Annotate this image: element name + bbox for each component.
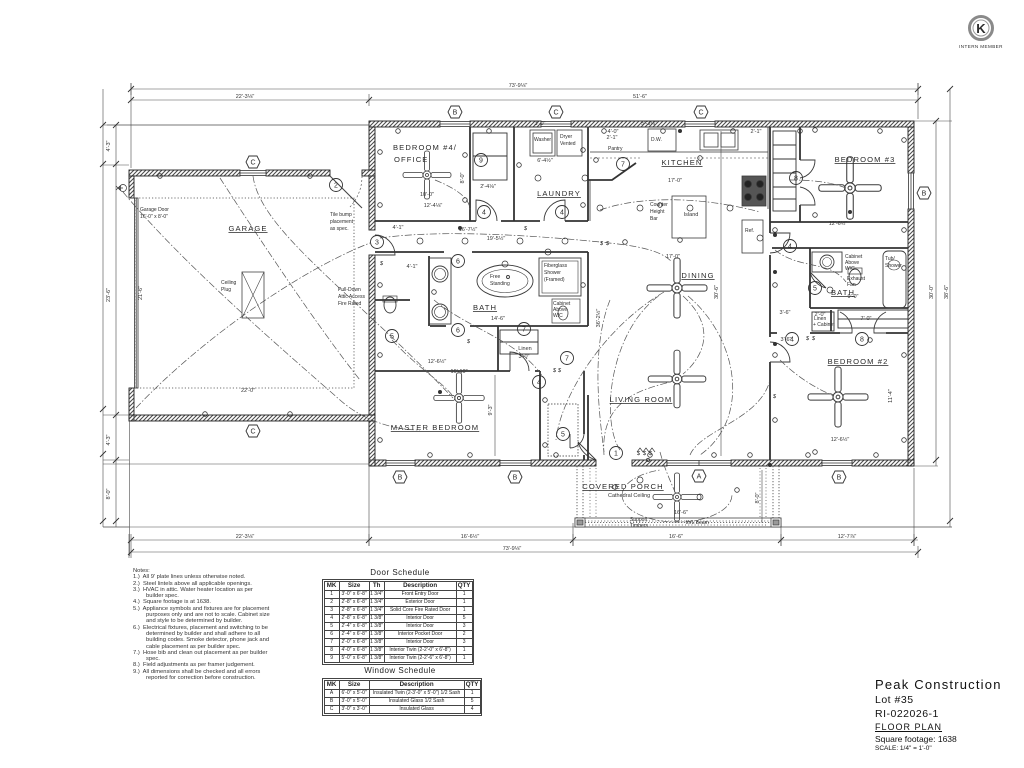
svg-text:COVERED PORCH: COVERED PORCH xyxy=(582,482,663,491)
svg-text:MASTER BEDROOM: MASTER BEDROOM xyxy=(391,423,479,432)
svg-text:2'-1": 2'-1" xyxy=(751,129,762,135)
svg-text:$: $ xyxy=(557,368,562,374)
svg-text:3: 3 xyxy=(375,240,379,247)
svg-text:12'-6½": 12'-6½" xyxy=(829,220,848,227)
svg-text:$: $ xyxy=(642,451,647,457)
svg-text:Pantry: Pantry xyxy=(608,146,623,152)
svg-text:Cathedral Ceiling: Cathedral Ceiling xyxy=(608,493,650,499)
svg-text:C: C xyxy=(698,110,703,117)
svg-text:Attic Access: Attic Access xyxy=(338,294,365,300)
svg-text:B: B xyxy=(837,475,842,482)
svg-text:B: B xyxy=(922,191,927,198)
svg-text:16'-10": 16'-10" xyxy=(450,369,467,375)
svg-text:Island: Island xyxy=(684,212,699,218)
svg-text:14'-6": 14'-6" xyxy=(491,316,505,322)
svg-text:6: 6 xyxy=(456,328,460,335)
svg-text:OFFICE: OFFICE xyxy=(394,155,428,164)
svg-text:$: $ xyxy=(379,261,384,267)
svg-text:23'-6": 23'-6" xyxy=(106,288,112,302)
svg-text:K: K xyxy=(976,21,986,36)
svg-text:KITCHEN: KITCHEN xyxy=(661,158,702,167)
svg-text:12'-6½": 12'-6½" xyxy=(831,436,850,443)
svg-text:Bar: Bar xyxy=(650,216,658,222)
svg-text:3'-6": 3'-6" xyxy=(780,310,791,316)
svg-text:10'-0": 10'-0" xyxy=(420,192,434,198)
svg-text:$: $ xyxy=(811,336,816,342)
svg-text:C: C xyxy=(553,110,558,117)
svg-text:$: $ xyxy=(605,241,610,247)
svg-text:Washer: Washer xyxy=(534,137,551,143)
svg-text:12'-7⅞": 12'-7⅞" xyxy=(838,534,857,540)
svg-text:$: $ xyxy=(636,451,641,457)
svg-text:DINING: DINING xyxy=(681,271,714,280)
svg-text:2'-1": 2'-1" xyxy=(607,135,618,141)
svg-text:C: C xyxy=(250,160,255,167)
svg-text:Shower: Shower xyxy=(544,270,561,276)
svg-text:Shower: Shower xyxy=(885,263,902,269)
svg-text:4: 4 xyxy=(537,380,541,387)
svg-text:8: 8 xyxy=(860,337,864,344)
svg-text:7: 7 xyxy=(565,356,569,363)
svg-text:Tile bump: Tile bump xyxy=(330,212,352,218)
svg-text:BEDROOM #4/: BEDROOM #4/ xyxy=(393,143,457,152)
svg-text:BATH: BATH xyxy=(473,303,497,312)
svg-text:3'-0": 3'-0" xyxy=(519,354,530,360)
svg-text:C: C xyxy=(250,429,255,436)
svg-text:22'-0": 22'-0" xyxy=(241,388,255,394)
svg-text:Height: Height xyxy=(650,209,665,215)
svg-text:Pull-Down: Pull-Down xyxy=(338,287,361,293)
svg-text:4: 4 xyxy=(790,337,794,344)
svg-text:Fan: Fan xyxy=(847,282,856,288)
svg-text:$: $ xyxy=(772,394,777,400)
svg-text:16'-6½": 16'-6½" xyxy=(461,533,480,540)
svg-text:$: $ xyxy=(599,241,604,247)
svg-text:1: 1 xyxy=(614,451,618,458)
svg-text:$: $ xyxy=(466,339,471,345)
svg-text:30'-0": 30'-0" xyxy=(929,285,935,299)
svg-text:16'-0" x 8'-0": 16'-0" x 8'-0" xyxy=(140,214,168,220)
svg-text:Linen: Linen xyxy=(518,346,531,352)
svg-text:4: 4 xyxy=(560,210,564,217)
svg-text:16'-6": 16'-6" xyxy=(669,534,683,540)
svg-text:5: 5 xyxy=(561,432,565,439)
svg-text:$: $ xyxy=(552,368,557,374)
svg-text:2: 2 xyxy=(334,183,338,190)
svg-text:2'-4⅛": 2'-4⅛" xyxy=(480,184,496,190)
svg-text:5: 5 xyxy=(813,286,817,293)
svg-text:6'-4½": 6'-4½" xyxy=(537,157,553,164)
svg-text:Ref.: Ref. xyxy=(745,228,754,234)
svg-text:Ceiling: Ceiling xyxy=(221,280,237,286)
svg-text:4: 4 xyxy=(788,244,792,251)
svg-text:36'-2½": 36'-2½" xyxy=(595,309,602,328)
svg-text:BEDROOM #2: BEDROOM #2 xyxy=(828,357,889,366)
svg-text:(Framed): (Framed) xyxy=(544,277,565,283)
svg-text:9: 9 xyxy=(479,158,483,165)
svg-text:51'-6": 51'-6" xyxy=(633,94,647,100)
svg-text:4'-1": 4'-1" xyxy=(407,264,418,270)
svg-text:8'-0": 8'-0" xyxy=(106,488,112,499)
svg-text:Timbers: Timbers xyxy=(630,523,648,529)
svg-text:$: $ xyxy=(523,226,528,232)
svg-text:17'-0": 17'-0" xyxy=(668,178,682,184)
svg-text:Tub/: Tub/ xyxy=(885,256,895,262)
svg-text:21'-6": 21'-6" xyxy=(138,286,144,300)
svg-text:38'-6": 38'-6" xyxy=(944,285,950,299)
svg-text:Dryer: Dryer xyxy=(560,134,573,140)
svg-text:4'-3": 4'-3" xyxy=(106,434,112,445)
svg-text:4'-3": 4'-3" xyxy=(106,140,112,151)
svg-text:12'-6½": 12'-6½" xyxy=(428,358,447,365)
svg-text:as spec.: as spec. xyxy=(330,226,349,232)
svg-text:22'-3⅛": 22'-3⅛" xyxy=(236,534,255,540)
svg-text:Free: Free xyxy=(490,274,501,280)
svg-text:D.W.: D.W. xyxy=(651,137,662,143)
svg-text:73'-9⅛": 73'-9⅛" xyxy=(503,546,522,552)
svg-text:A: A xyxy=(697,474,702,481)
svg-text:9'-3": 9'-3" xyxy=(488,404,494,415)
svg-text:8'-0": 8'-0" xyxy=(460,172,466,183)
svg-text:7: 7 xyxy=(621,162,625,169)
svg-text:Vented: Vented xyxy=(560,141,576,147)
svg-text:30'-6": 30'-6" xyxy=(714,285,720,299)
svg-text:W/C: W/C xyxy=(553,313,563,319)
svg-text:Garage Door: Garage Door xyxy=(140,207,169,213)
svg-text:Standing: Standing xyxy=(490,281,510,287)
svg-text:Plug: Plug xyxy=(221,287,231,293)
svg-text:LAUNDRY: LAUNDRY xyxy=(537,189,581,198)
svg-text:6: 6 xyxy=(456,259,460,266)
svg-text:5'-3¾": 5'-3¾" xyxy=(641,121,657,127)
svg-text:Fire Rated: Fire Rated xyxy=(338,301,362,307)
svg-text:11'-4": 11'-4" xyxy=(888,389,894,403)
svg-text:GARAGE: GARAGE xyxy=(228,224,267,233)
svg-text:7'-0": 7'-0" xyxy=(861,316,872,322)
svg-text:19'-5½": 19'-5½" xyxy=(487,235,506,242)
svg-text:W/C: W/C xyxy=(845,266,855,272)
svg-text:4'-1": 4'-1" xyxy=(393,225,404,231)
svg-text:7: 7 xyxy=(522,327,526,334)
svg-text:+ Cabinet: + Cabinet xyxy=(813,322,835,328)
svg-text:B: B xyxy=(513,475,518,482)
svg-text:LIVING ROOM: LIVING ROOM xyxy=(610,395,673,404)
svg-text:B: B xyxy=(453,110,458,117)
svg-text:placement: placement xyxy=(330,219,354,225)
svg-text:BATH: BATH xyxy=(831,288,855,297)
svg-text:3'-0": 3'-0" xyxy=(535,121,546,127)
svg-text:BEDROOM #3: BEDROOM #3 xyxy=(835,155,896,164)
svg-text:17'-0": 17'-0" xyxy=(666,254,680,260)
svg-text:Fiberglass: Fiberglass xyxy=(544,263,568,269)
svg-text:$: $ xyxy=(805,336,810,342)
svg-text:73'-9⅛": 73'-9⅛" xyxy=(509,83,528,89)
svg-text:B: B xyxy=(398,475,403,482)
svg-text:22'-3⅛": 22'-3⅛" xyxy=(236,94,255,100)
svg-text:12'-4⅛": 12'-4⅛" xyxy=(424,203,443,209)
svg-text:8: 8 xyxy=(794,176,798,183)
svg-text:16'-6": 16'-6" xyxy=(674,510,688,516)
svg-text:INTERN MEMBER: INTERN MEMBER xyxy=(959,44,1003,49)
svg-text:4: 4 xyxy=(482,210,486,217)
svg-text:5: 5 xyxy=(390,334,394,341)
